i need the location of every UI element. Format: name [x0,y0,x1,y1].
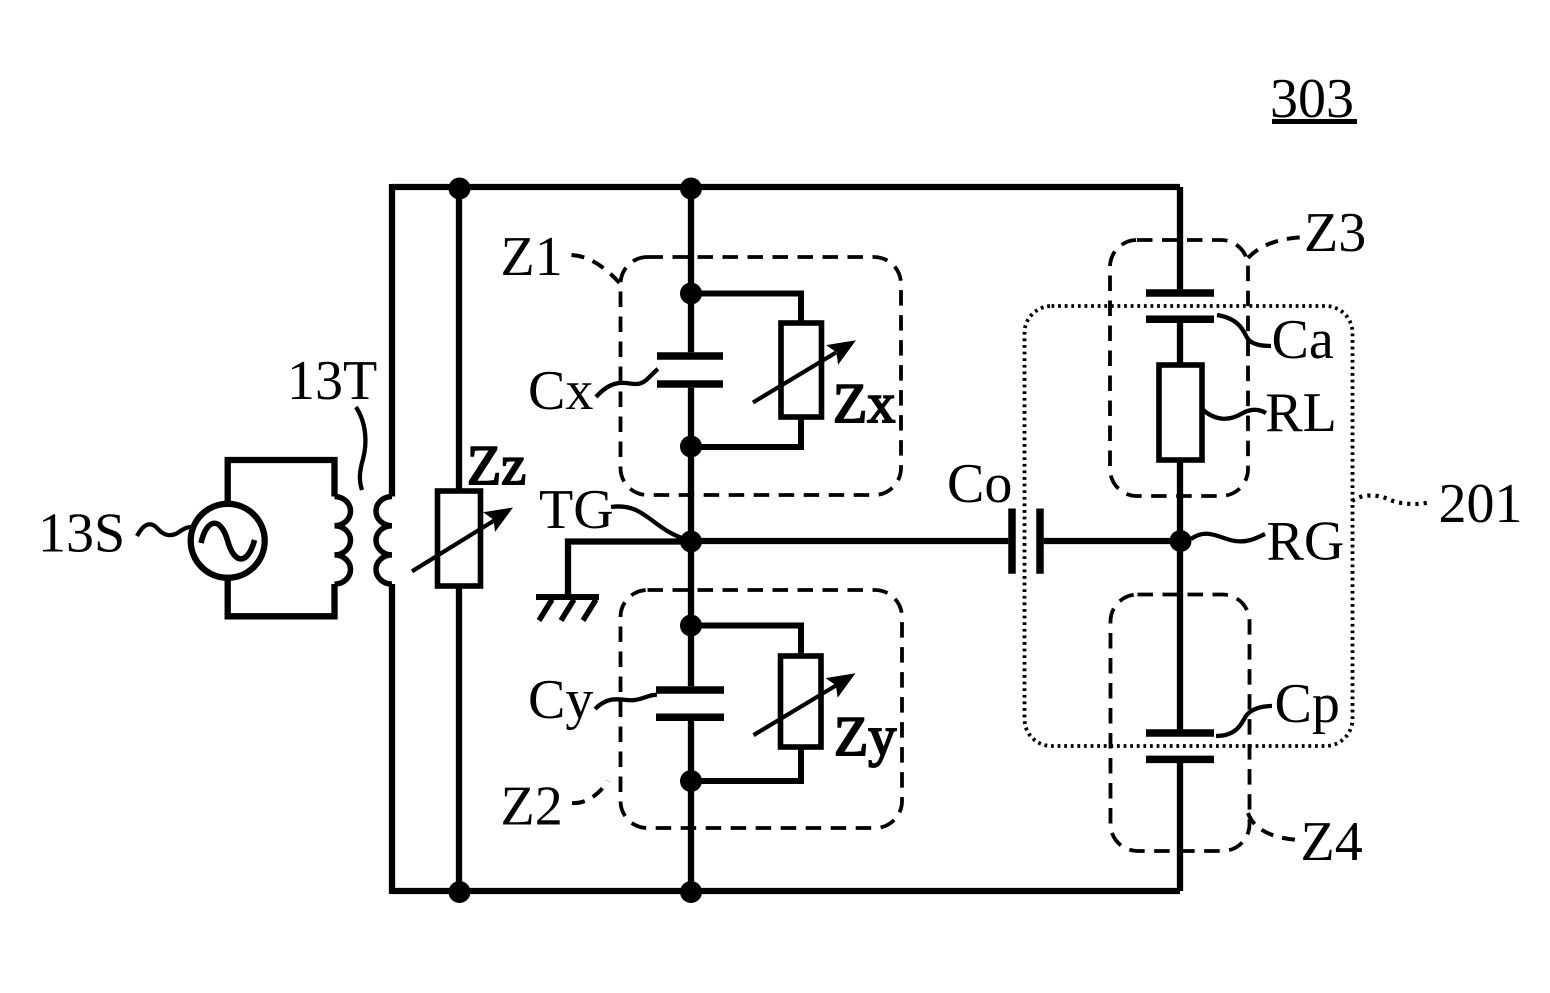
svg-text:13S: 13S [38,503,125,565]
svg-text:Cx: Cx [528,360,593,422]
svg-text:TG: TG [539,479,614,541]
svg-text:201: 201 [1439,473,1523,535]
svg-text:Zx: Zx [833,373,895,435]
svg-text:Zz: Zz [467,435,526,497]
svg-text:RL: RL [1265,382,1337,444]
svg-text:Cp: Cp [1275,673,1340,735]
svg-text:13T: 13T [287,350,377,412]
svg-text:Z4: Z4 [1301,811,1363,873]
svg-text:Zy: Zy [834,706,896,768]
svg-text:RG: RG [1267,511,1345,573]
svg-text:Cy: Cy [528,669,593,731]
svg-text:Z3: Z3 [1304,202,1366,264]
svg-text:Z2: Z2 [501,776,563,838]
svg-text:Co: Co [947,453,1012,515]
svg-text:Z1: Z1 [501,226,563,288]
svg-text:Ca: Ca [1272,309,1334,371]
